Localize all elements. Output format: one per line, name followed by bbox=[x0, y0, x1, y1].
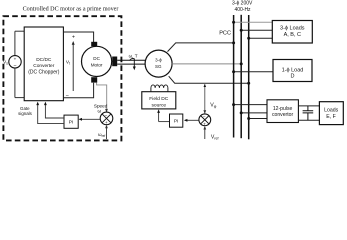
svg-text:DC: DC bbox=[93, 56, 100, 61]
wire source loop left vertical bbox=[14, 31, 16, 97]
tap wire to converter 2 bbox=[241, 112, 267, 114]
svg-text:A, B, C: A, B, C bbox=[284, 32, 301, 38]
omega ref arrow bbox=[106, 126, 108, 139]
tap wire to converter 3 bbox=[249, 118, 267, 120]
svg-text:+: + bbox=[105, 120, 108, 125]
loads ABC box bbox=[272, 21, 312, 44]
svg-text:−: − bbox=[203, 115, 206, 120]
junction phase C bbox=[247, 82, 250, 85]
speed summer circle bbox=[100, 112, 113, 125]
shaft double line bbox=[117, 60, 145, 64]
tap wire to loads ABC phase 1 bbox=[234, 21, 273, 23]
loads EF box bbox=[319, 102, 343, 125]
PI box (field) bbox=[170, 114, 183, 127]
12-pulse convertor box bbox=[267, 100, 298, 123]
svg-text:source: source bbox=[151, 103, 166, 109]
gate signal wire A bbox=[45, 103, 64, 118]
DC/DC converter box bbox=[24, 27, 63, 101]
shaft coupling bbox=[112, 57, 117, 67]
speed feedback wire bbox=[97, 83, 107, 112]
shaft stub bbox=[111, 60, 114, 62]
load D box bbox=[273, 60, 312, 82]
svg-text:3-ϕ Loads: 3-ϕ Loads bbox=[280, 26, 305, 32]
svg-text:Converter: Converter bbox=[33, 63, 54, 69]
rotation arrow over shaft bbox=[130, 59, 135, 67]
tap wire to loads ABC phase 3 bbox=[249, 37, 273, 39]
dc link wire bottom bbox=[298, 119, 319, 121]
svg-text:+: + bbox=[14, 56, 17, 61]
motor bottom brush bbox=[91, 77, 97, 82]
DC motor circle bbox=[82, 46, 112, 76]
svg-text:+: + bbox=[72, 34, 75, 40]
svg-text:Controlled DC motor as a prime: Controlled DC motor as a prime mover bbox=[23, 6, 119, 12]
svg-text:Motor: Motor bbox=[91, 63, 103, 68]
svg-text:1-ϕ Load: 1-ϕ Load bbox=[282, 67, 304, 73]
dc link wire top bbox=[298, 105, 319, 107]
dc link capacitor bbox=[303, 106, 314, 120]
bus line 2 bbox=[240, 15, 242, 138]
tap wire to loads ABC phase 2 bbox=[241, 29, 272, 31]
svg-text:−: − bbox=[105, 113, 108, 118]
field summer circle bbox=[199, 114, 211, 126]
tap wire to load D bbox=[234, 71, 273, 73]
svg-text:E, F: E, F bbox=[326, 114, 336, 120]
Field DC source box bbox=[142, 92, 176, 109]
PI box (speed) bbox=[64, 115, 78, 128]
3-phi SG circle bbox=[145, 50, 172, 77]
phase B wire bbox=[172, 63, 241, 65]
svg-text:ω, T: ω, T bbox=[129, 53, 138, 58]
svg-text:−: − bbox=[13, 64, 16, 70]
tap wire to converter 1 bbox=[234, 104, 267, 106]
phase A wire bbox=[168, 43, 234, 52]
svg-text:PI: PI bbox=[174, 119, 179, 125]
field winding coil bbox=[151, 88, 168, 92]
svg-text:+: + bbox=[203, 121, 206, 126]
svg-text:D: D bbox=[291, 73, 295, 79]
svg-text:400-Hz: 400-Hz bbox=[234, 7, 251, 13]
svg-text:(DC Chopper): (DC Chopper) bbox=[28, 70, 59, 76]
field PI to field box wire bbox=[159, 121, 170, 123]
junction phase A bbox=[232, 41, 235, 44]
bus line 3 bbox=[248, 15, 250, 139]
svg-text:3-ϕ 200V: 3-ϕ 200V bbox=[232, 1, 253, 7]
svg-text:signals: signals bbox=[18, 111, 32, 116]
svg-text:ω: ω bbox=[98, 108, 102, 114]
junction phase B bbox=[240, 62, 243, 65]
svg-text:Field DC: Field DC bbox=[149, 96, 168, 102]
dashed enclosure box bbox=[3, 16, 121, 140]
wire converter to motor bottom bbox=[63, 83, 93, 98]
source Vs circle bbox=[9, 56, 21, 68]
bus line 1 bbox=[233, 15, 235, 138]
phase C wire bbox=[169, 76, 249, 83]
svg-text:PCC: PCC bbox=[219, 30, 231, 36]
svg-text:PI: PI bbox=[69, 120, 74, 126]
Vt measurement arrow bbox=[72, 44, 74, 91]
svg-text:−: − bbox=[66, 93, 69, 99]
svg-text:SG: SG bbox=[155, 64, 162, 69]
svg-text:Speed: Speed bbox=[94, 103, 108, 108]
svg-text:DC/DC: DC/DC bbox=[36, 57, 52, 63]
svg-text:Loads: Loads bbox=[324, 108, 339, 114]
field control arrow into box bbox=[158, 111, 160, 122]
motor top brush bbox=[91, 42, 97, 47]
wire source loop top bbox=[15, 30, 24, 32]
field summer to PI wire bbox=[185, 119, 199, 121]
gate signal wire B bbox=[38, 103, 64, 124]
summer to PI wire bbox=[80, 118, 101, 120]
svg-text:Vφ: Vφ bbox=[210, 102, 216, 108]
svg-text:convertor: convertor bbox=[272, 112, 294, 118]
svg-text:3-ϕ: 3-ϕ bbox=[155, 58, 162, 63]
V phi sense wire bbox=[204, 84, 206, 113]
wire source loop bottom bbox=[15, 97, 24, 99]
wire converter to motor top bbox=[63, 32, 93, 43]
V ref arrow bbox=[204, 127, 206, 139]
